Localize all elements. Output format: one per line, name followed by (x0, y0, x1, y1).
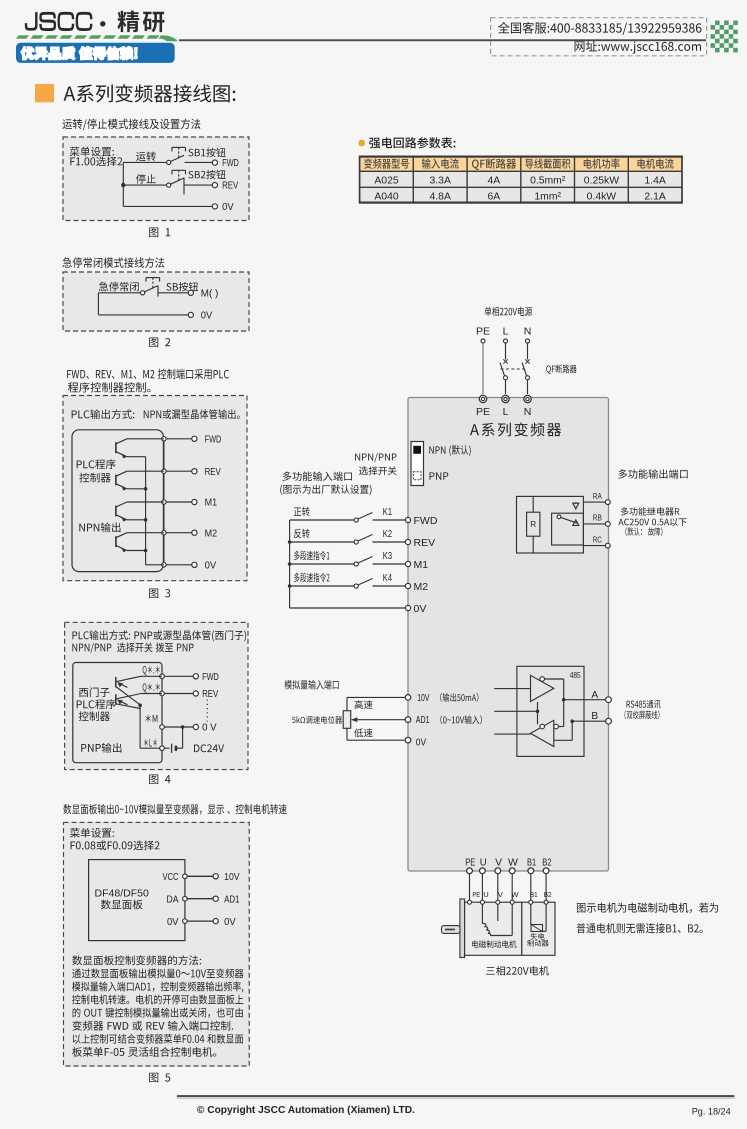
svg-text:AD1: AD1 (224, 894, 240, 905)
svg-text:M( ): M( ) (201, 289, 219, 300)
svg-text:M2: M2 (205, 528, 218, 539)
svg-text:K2: K2 (383, 528, 392, 540)
svg-text:FWD: FWD (202, 672, 219, 683)
svg-text:B1: B1 (530, 890, 538, 899)
svg-text:FWD: FWD (222, 158, 239, 169)
svg-text:RB: RB (593, 513, 602, 523)
svg-text:DF48/DF50: DF48/DF50 (95, 887, 149, 899)
svg-text:B: B (591, 711, 598, 722)
svg-text:REV: REV (202, 689, 218, 700)
svg-text:0V: 0V (222, 202, 234, 213)
svg-text:0.25kW: 0.25kW (584, 175, 619, 186)
svg-text:B1: B1 (527, 856, 536, 868)
svg-text:N: N (524, 406, 532, 418)
svg-text:© Copyright JSCC Automation (X: © Copyright JSCC Automation (Xiamen) LTD… (197, 1105, 415, 1116)
svg-text:0V: 0V (416, 737, 427, 748)
svg-text:PE: PE (476, 326, 490, 338)
svg-text:R: R (530, 520, 536, 529)
svg-text:N: N (524, 326, 532, 338)
svg-text:0V: 0V (167, 917, 179, 928)
svg-text:1mm²: 1mm² (534, 191, 561, 202)
svg-text:0.4kW: 0.4kW (587, 191, 617, 202)
svg-text:REV: REV (222, 181, 238, 192)
svg-text:4.8A: 4.8A (430, 191, 451, 202)
svg-text:4A: 4A (488, 175, 501, 186)
svg-text:REV: REV (414, 537, 436, 549)
svg-text:A: A (591, 690, 598, 701)
svg-text:DA: DA (167, 894, 179, 905)
svg-text:VCC: VCC (163, 872, 179, 883)
svg-text:B2: B2 (544, 890, 552, 899)
svg-text:U: U (480, 856, 487, 868)
svg-text:B2: B2 (542, 856, 551, 868)
svg-text:0V: 0V (205, 561, 217, 572)
svg-text:10V: 10V (417, 693, 429, 704)
svg-text:PE: PE (472, 890, 480, 899)
svg-text:6A: 6A (488, 191, 501, 202)
svg-text:M1: M1 (414, 559, 429, 571)
svg-text:L: L (503, 326, 509, 338)
svg-text:V: V (495, 856, 502, 868)
svg-text:A040: A040 (374, 191, 398, 202)
svg-text:Pg. 18/24: Pg. 18/24 (692, 1107, 731, 1117)
svg-text:M2: M2 (414, 581, 429, 593)
svg-text:2.1A: 2.1A (644, 191, 665, 202)
svg-text:FWD: FWD (414, 515, 438, 527)
svg-text:485: 485 (570, 671, 581, 680)
svg-text:W: W (511, 890, 519, 899)
svg-text:W: W (508, 856, 518, 868)
svg-text:RA: RA (593, 491, 602, 501)
svg-text:RC: RC (593, 534, 602, 544)
svg-text:PE: PE (465, 856, 475, 868)
svg-text:U: U (483, 890, 488, 899)
svg-text:K3: K3 (383, 550, 392, 562)
svg-text:3.3A: 3.3A (430, 175, 451, 186)
svg-text:K4: K4 (383, 572, 392, 584)
svg-text:0V: 0V (224, 917, 236, 928)
svg-text:M1: M1 (205, 498, 218, 509)
svg-text:0.5mm²: 0.5mm² (530, 175, 566, 186)
svg-text:FWD: FWD (205, 435, 222, 446)
svg-text:REV: REV (205, 467, 221, 478)
svg-text:10V: 10V (224, 872, 240, 883)
svg-text:AD1: AD1 (416, 715, 430, 726)
svg-text:K1: K1 (383, 506, 392, 518)
svg-text:0 V: 0 V (202, 723, 217, 734)
svg-text:1.4A: 1.4A (644, 175, 665, 186)
svg-text:L: L (503, 406, 509, 418)
svg-text:A025: A025 (374, 175, 398, 186)
svg-text:0V: 0V (201, 311, 213, 322)
svg-text:PE: PE (476, 406, 490, 418)
svg-text:0V: 0V (414, 603, 427, 615)
